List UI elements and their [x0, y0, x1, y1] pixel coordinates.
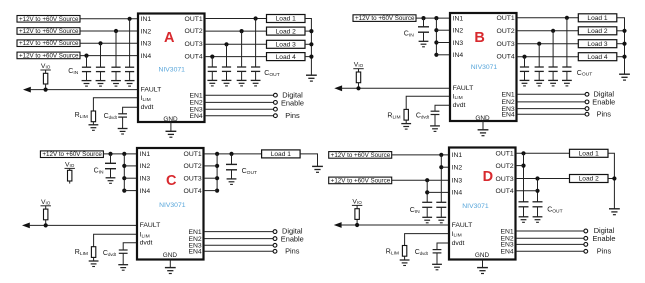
svg-text:Load 4: Load 4 — [276, 54, 297, 61]
svg-text:Load 1: Load 1 — [276, 16, 297, 23]
svg-text:IN2: IN2 — [140, 163, 151, 170]
junction OUT3 C — [215, 176, 219, 180]
svg-text:OUT2: OUT2 — [185, 28, 203, 35]
source V2 D (+12V to +60V) — [329, 177, 392, 184]
wire bus to OUT3 C — [204, 177, 218, 179]
ground GND pin B — [478, 130, 489, 136]
svg-text:OUT3: OUT3 — [185, 41, 203, 48]
svg-text:CIN: CIN — [94, 168, 104, 176]
svg-text:EN4: EN4 — [188, 249, 201, 256]
wire source2 to IN3 D — [392, 179, 449, 181]
wire FAULT A — [30, 89, 139, 91]
junction CIN B — [421, 16, 425, 20]
wire IN bus C — [123, 154, 125, 191]
svg-text:+12V to +60V Source: +12V to +60V Source — [331, 152, 391, 159]
svg-text:OUT2: OUT2 — [497, 28, 515, 35]
terminal EN1 D — [584, 229, 588, 233]
svg-text:Load 3: Load 3 — [587, 41, 608, 48]
svg-text:B: B — [474, 30, 484, 46]
svg-text:IN1: IN1 — [140, 151, 151, 158]
source V1 D (+12V to +60V) — [329, 152, 392, 159]
svg-text:Enable: Enable — [592, 234, 615, 243]
junction IN1 D — [439, 153, 443, 157]
wire load return D — [608, 153, 614, 209]
junction OUT2 B — [551, 29, 555, 33]
wire cap lead OUT1 A — [255, 19, 257, 68]
op-amp / load-switch IC U-B (NIV3071) — [450, 13, 517, 122]
svg-text:COUT: COUT — [264, 70, 279, 78]
source V2 A (+12V to +60V) — [17, 28, 80, 35]
svg-text:VIO: VIO — [352, 198, 362, 205]
ground RLIM A — [89, 125, 99, 131]
svg-text:COUT: COUT — [242, 168, 257, 176]
capacitor CIN C — [105, 163, 116, 183]
svg-text:dvdt: dvdt — [141, 104, 154, 111]
junction IN3 A — [98, 41, 102, 45]
svg-text:GND: GND — [475, 115, 490, 122]
arrow FAULT B — [334, 85, 342, 91]
wire bus to IN3 B — [436, 42, 450, 44]
svg-text:Pins: Pins — [597, 246, 612, 255]
terminal EN1 C — [273, 230, 277, 234]
capacitor CIN D#2 — [422, 202, 432, 223]
svg-text:EN4: EN4 — [501, 112, 514, 119]
load Load 3 A — [267, 40, 306, 48]
resistor RLIM D — [402, 246, 406, 261]
svg-text:dvdt: dvdt — [452, 240, 465, 247]
junction load2 return A — [309, 29, 313, 33]
wire FAULT B — [341, 87, 450, 89]
junction OUT4 B — [522, 55, 526, 59]
junction IN2 D — [439, 165, 443, 169]
junction OUT3 A — [224, 42, 228, 46]
wire bus to IN2 D — [441, 166, 449, 168]
wire EN1 A — [205, 94, 274, 96]
svg-text:Load 4: Load 4 — [587, 54, 608, 61]
wire load return C — [300, 154, 317, 167]
svg-text:IN1: IN1 — [452, 152, 463, 159]
svg-text:Cdvdt: Cdvdt — [416, 113, 430, 120]
svg-text:Load 1: Load 1 — [271, 151, 292, 158]
junction IN2 B — [434, 28, 438, 32]
junction IN4 B — [434, 53, 438, 57]
rail symbol VIO (floating) C — [65, 161, 75, 183]
capacitor CIN B — [418, 27, 429, 47]
svg-text:NIV3071: NIV3071 — [471, 64, 498, 71]
svg-text:IN1: IN1 — [141, 16, 152, 23]
wire load3 return stub B — [617, 43, 625, 45]
load Load 1 D — [570, 149, 609, 157]
wire EN2 B — [517, 101, 586, 103]
wire cap lead OUT2 A — [241, 31, 243, 67]
svg-text:IN4: IN4 — [453, 52, 464, 59]
terminal EN2 B — [585, 100, 589, 104]
wire source to IN1 B — [416, 17, 450, 19]
svg-text:OUT3: OUT3 — [497, 41, 515, 48]
ground RLIM B — [401, 124, 411, 130]
wire load return B — [617, 18, 625, 74]
svg-text:+12V to +60V Source: +12V to +60V Source — [331, 177, 391, 184]
wire EN2 A — [205, 101, 274, 103]
source V4 A (+12V to +60V) — [17, 52, 80, 59]
terminal EN2 A — [274, 101, 278, 105]
svg-text:NIV3071: NIV3071 — [158, 67, 185, 74]
junction IN2 C — [122, 164, 126, 168]
terminal EN3 D — [584, 243, 588, 247]
wire EN1 D — [516, 230, 584, 232]
ground load return C — [312, 166, 323, 172]
op-amp / load-switch IC U-C (NIV3071) — [137, 148, 204, 260]
capacitor COUT A#2 — [237, 67, 247, 86]
svg-text:NIV3071: NIV3071 — [159, 202, 186, 209]
svg-text:IN2: IN2 — [453, 28, 464, 35]
svg-text:CIN: CIN — [404, 31, 414, 39]
svg-text:EN4: EN4 — [189, 113, 202, 120]
terminal EN2 C — [273, 237, 277, 241]
arrow FAULT A — [23, 87, 31, 93]
junction load4 return B — [622, 55, 626, 59]
wire cap lead COUT C — [231, 154, 233, 165]
wire cap lead CIN B — [423, 18, 425, 27]
junction load2 return D — [612, 176, 616, 180]
wire bus to IN4 C — [124, 190, 137, 192]
svg-text:+12V to +60V Source: +12V to +60V Source — [19, 52, 79, 59]
wire FAULT C — [29, 224, 138, 226]
wire OUT4 to Load4 B — [517, 56, 579, 58]
wire cap lead IN4 A — [86, 56, 88, 68]
svg-text:FAULT: FAULT — [453, 85, 474, 92]
junction OUT bus top C — [215, 152, 219, 156]
op-amp / load-switch IC U-A (NIV3071) — [138, 14, 205, 123]
svg-text:FAULT: FAULT — [452, 222, 473, 229]
wire IN1-IN2 bus D — [440, 155, 442, 202]
svg-text:Pins: Pins — [285, 246, 300, 255]
junction load4 return A — [309, 55, 313, 59]
svg-text:EN1: EN1 — [500, 228, 513, 235]
wire cap lead OUT1 B — [566, 18, 568, 67]
junction OUT2 C — [215, 164, 219, 168]
svg-text:VIO: VIO — [65, 161, 75, 168]
junction IN2 A — [114, 29, 118, 33]
svg-text:NIV3071: NIV3071 — [462, 203, 489, 210]
resistor RLIM A — [91, 111, 95, 125]
junction load3 return B — [622, 42, 626, 46]
wire OUT bus C — [216, 154, 218, 191]
pull-up VIO B — [353, 62, 363, 91]
svg-text:OUT1: OUT1 — [184, 151, 202, 158]
pull-up VIO D — [352, 198, 362, 227]
pull-up VIO C — [41, 199, 51, 228]
svg-text:A: A — [164, 30, 175, 46]
ground load return A — [306, 75, 317, 81]
wire load4 return stub B — [617, 56, 625, 58]
load Load 3 B — [578, 40, 617, 48]
load Load 2 B — [578, 27, 617, 35]
svg-text:OUT3: OUT3 — [496, 176, 514, 183]
svg-text:GND: GND — [163, 116, 178, 123]
wire ILIM net D — [405, 234, 449, 246]
ground load return B — [619, 74, 630, 80]
junction OUT1 D — [521, 151, 525, 155]
svg-text:OUT4: OUT4 — [184, 188, 202, 195]
junction OUT1 A — [254, 16, 258, 20]
wire cap lead CIN C — [110, 154, 112, 163]
terminal EN1 B — [585, 92, 589, 96]
wire OUT1-OUT2 bus D — [523, 153, 525, 202]
svg-text:OUT1: OUT1 — [496, 151, 514, 158]
junction OUT2 D — [521, 164, 525, 168]
ground GND pin C — [165, 268, 176, 274]
wire cap lead OUT4 B — [524, 57, 526, 67]
op-amp / load-switch IC U-D (NIV3071) — [449, 148, 516, 260]
svg-text:EN1: EN1 — [188, 229, 201, 236]
wire dvdt net C — [123, 243, 137, 250]
junction IN4 C — [122, 189, 126, 193]
wire OUT3 to Load3 B — [517, 43, 579, 45]
wire OUT3-OUT4 bus D — [537, 179, 539, 202]
junction IN1 A — [128, 17, 132, 21]
resistor RLIM C — [91, 247, 95, 261]
junction IN3 B — [434, 40, 438, 44]
svg-text:VIO: VIO — [354, 62, 364, 69]
capacitor CIN D#1 — [436, 202, 446, 223]
svg-text:RLIM: RLIM — [75, 112, 88, 120]
svg-text:IN2: IN2 — [141, 28, 152, 35]
svg-text:IN4: IN4 — [452, 190, 463, 197]
wire bus to IN4 D — [427, 191, 449, 193]
svg-text:Load 2: Load 2 — [276, 28, 297, 35]
svg-text:GND: GND — [475, 252, 490, 259]
svg-text:Load 2: Load 2 — [587, 28, 608, 35]
terminal EN3 B — [585, 107, 589, 111]
junction IN4 A — [84, 54, 88, 58]
capacitor COUT B#1 — [562, 67, 572, 86]
capacitor COUT D#1 — [519, 202, 529, 223]
capacitor COUT A#1 — [251, 67, 261, 86]
wire source1 to IN1 D — [392, 154, 449, 156]
arrow FAULT D — [334, 222, 342, 228]
capacitor COUT B#2 — [548, 67, 558, 86]
wire GND pin C — [169, 260, 171, 268]
svg-text:OUT2: OUT2 — [184, 163, 202, 170]
wire FAULT D — [340, 224, 449, 226]
svg-text:IN3: IN3 — [141, 41, 152, 48]
junction COUT C — [229, 152, 233, 156]
load Load 2 D — [570, 175, 609, 183]
wire cap lead OUT2 B — [552, 31, 554, 67]
wire bus to OUT4 C — [204, 190, 218, 192]
source V1 B (+12V to +60V) — [353, 15, 416, 22]
wire EN3 C — [204, 244, 274, 246]
terminal EN4 B — [585, 112, 589, 116]
svg-text:IN2: IN2 — [452, 165, 463, 172]
wire IN3-IN4 bus D — [426, 180, 428, 202]
ground RLIM C — [89, 261, 99, 267]
capacitor COUT A#4 — [207, 67, 217, 86]
wire GND pin B — [482, 121, 484, 130]
wire ILIM net C — [94, 234, 137, 246]
terminal EN2 D — [584, 236, 588, 240]
svg-text:IN4: IN4 — [140, 188, 151, 195]
svg-text:C: C — [166, 173, 177, 189]
svg-text:Pins: Pins — [597, 110, 612, 119]
load Load 2 A — [267, 27, 306, 35]
svg-text:OUT4: OUT4 — [497, 53, 515, 60]
wire EN4 A — [205, 115, 274, 117]
svg-text:Cdvdt: Cdvdt — [415, 249, 429, 256]
junction OUT4 D — [535, 189, 539, 193]
ground load return D — [609, 209, 620, 215]
wire bus to IN2 B — [436, 29, 450, 31]
svg-text:OUT1: OUT1 — [497, 15, 515, 22]
svg-text:dvdt: dvdt — [453, 102, 466, 109]
wire bus to IN2 C — [124, 165, 137, 167]
wire OUT4 to Load4 A — [205, 56, 267, 58]
svg-text:IN4: IN4 — [141, 53, 152, 60]
terminal EN4 D — [584, 249, 588, 253]
svg-text:D: D — [483, 169, 493, 185]
wire EN2 D — [516, 237, 584, 239]
svg-text:+12V to +60V Source: +12V to +60V Source — [355, 15, 415, 22]
wire OUT2 to Load2 B — [517, 30, 579, 32]
svg-text:Load 1: Load 1 — [587, 15, 608, 22]
ground GND pin D — [477, 268, 488, 274]
junction CIN C — [108, 152, 112, 156]
svg-text:IN3: IN3 — [140, 176, 151, 183]
svg-text:RLIM: RLIM — [75, 249, 88, 257]
load Load 1 C — [262, 150, 301, 158]
capacitor COUT C — [226, 164, 237, 184]
wire EN3 D — [516, 243, 584, 245]
capacitor Cdvdt D — [432, 250, 442, 270]
ground GND pin A — [166, 131, 177, 137]
svg-text:Cdvdt: Cdvdt — [103, 250, 117, 257]
svg-text:COUT: COUT — [547, 207, 562, 215]
svg-text:VIO: VIO — [41, 63, 51, 70]
capacitor Cdvdt A — [118, 114, 128, 134]
wire cap lead OUT4 A — [211, 57, 213, 67]
wire ILIM net A — [93, 98, 138, 111]
svg-text:Load 1: Load 1 — [579, 151, 600, 158]
wire OUT3 to Load3 A — [205, 43, 267, 45]
svg-text:COUT: COUT — [577, 70, 592, 78]
wire EN3 B — [517, 108, 586, 110]
wire GND pin A — [170, 122, 172, 131]
svg-text:IN3: IN3 — [453, 40, 464, 47]
junction OUT3 B — [537, 42, 541, 46]
junction IN4 D — [425, 190, 429, 194]
capacitor Cdvdt B — [430, 111, 440, 131]
svg-text:Enable: Enable — [281, 235, 304, 244]
capacitor CIN A#2 — [111, 67, 121, 86]
capacitor CIN A#4 — [82, 67, 92, 86]
wire bus to OUT4 D — [516, 190, 538, 192]
load Load 4 A — [267, 53, 306, 61]
junction OUT3 D — [535, 176, 539, 180]
svg-text:Pins: Pins — [285, 111, 300, 120]
svg-text:EN4: EN4 — [500, 249, 513, 256]
junction OUT1 B — [565, 16, 569, 20]
wire source4 to IN4 A — [80, 55, 138, 57]
wire EN2 C — [204, 238, 274, 240]
terminal EN4 A — [274, 114, 278, 118]
wire OUT1 to Load1 C — [204, 153, 262, 155]
junction load3 return A — [309, 42, 313, 46]
arrow FAULT C — [22, 223, 30, 229]
wire dvdt net A — [123, 107, 138, 114]
wire EN4 B — [517, 113, 586, 115]
wire GND pin D — [482, 260, 484, 268]
junction IN3 D — [425, 178, 429, 182]
source V3 A (+12V to +60V) — [17, 40, 80, 47]
svg-text:IN3: IN3 — [452, 178, 463, 185]
wire source to IN1 C — [103, 153, 137, 155]
capacitor COUT B#3 — [534, 67, 544, 86]
svg-text:Enable: Enable — [592, 97, 615, 106]
svg-text:OUT4: OUT4 — [185, 53, 203, 60]
load Load 4 B — [578, 53, 617, 61]
svg-text:Cdvdt: Cdvdt — [104, 113, 118, 120]
svg-text:+12V to +60V Source: +12V to +60V Source — [19, 28, 79, 35]
wire EN4 C — [204, 250, 274, 252]
wire cap lead OUT3 A — [226, 44, 228, 67]
wire OUT1 to Load1 B — [517, 17, 579, 19]
svg-text:OUT3: OUT3 — [184, 176, 202, 183]
wire cap lead OUT3 B — [538, 44, 540, 67]
wire bus to OUT2 D — [516, 165, 524, 167]
capacitor COUT A#3 — [222, 67, 232, 86]
ground RLIM D — [400, 260, 410, 266]
wire load return A — [305, 19, 311, 76]
svg-text:GND: GND — [163, 252, 178, 259]
wire source3 to IN3 A — [80, 42, 138, 44]
wire source1 to IN1 A — [80, 18, 138, 20]
wire load2 return stub D — [608, 178, 614, 180]
svg-text:VIO: VIO — [41, 199, 51, 206]
svg-text:OUT4: OUT4 — [496, 188, 514, 195]
resistor RLIM B — [404, 109, 408, 123]
wire load2 return stub A — [305, 30, 311, 32]
source V1 C (+12V to +60V) — [40, 151, 103, 158]
wire source2 to IN2 A — [80, 30, 138, 32]
svg-text:Load 3: Load 3 — [276, 42, 297, 49]
svg-text:IN1: IN1 — [453, 15, 464, 22]
capacitor COUT B#4 — [520, 67, 530, 86]
svg-text:RLIM: RLIM — [386, 249, 399, 257]
wire OUT3 to Load2 D — [516, 178, 570, 180]
wire cap lead IN3 A — [100, 43, 102, 67]
wire dvdt net B — [435, 105, 450, 111]
wire load3 return stub A — [305, 43, 311, 45]
wire bus to IN3 C — [124, 177, 137, 179]
wire EN3 A — [205, 108, 274, 110]
junction IN bus top C — [122, 152, 126, 156]
svg-text:RLIM: RLIM — [387, 113, 400, 121]
wire EN1 C — [204, 231, 274, 233]
wire OUT1 to Load1 D — [516, 152, 570, 154]
svg-text:+12V to +60V Source: +12V to +60V Source — [42, 151, 102, 158]
svg-text:Load 2: Load 2 — [579, 176, 600, 183]
svg-text:Enable: Enable — [281, 98, 304, 107]
terminal EN3 A — [274, 107, 278, 111]
svg-text:+12V to +60V Source: +12V to +60V Source — [19, 40, 79, 47]
junction OUT4 C — [215, 189, 219, 193]
wire EN4 D — [516, 250, 584, 252]
capacitor CIN A#1 — [125, 67, 135, 86]
svg-text:FAULT: FAULT — [141, 86, 162, 93]
load Load 1 B — [578, 14, 617, 22]
junction OUT2 A — [240, 29, 244, 33]
